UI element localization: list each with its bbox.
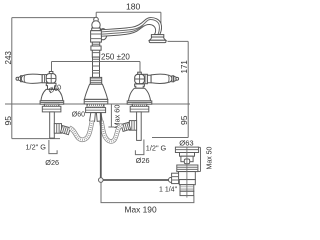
- pop-up rod joint: [99, 178, 104, 183]
- left valve bonnet: [46, 83, 56, 89]
- spout attach boss: [99, 29, 107, 40]
- right valve base flange: [127, 101, 152, 104]
- dimension 250 line: [52, 62, 141, 74]
- spout column neck: [92, 42, 99, 57]
- dimension Max 50 bracket: [197, 147, 201, 171]
- svg-text:250 ±20: 250 ±20: [101, 52, 130, 61]
- dimension O26 right bracket: [135, 140, 144, 155]
- left shank hatched: [44, 104, 59, 109]
- drain tailpipe threaded: [180, 185, 194, 192]
- right handle grip: [151, 74, 172, 83]
- right valve bell base: [128, 88, 150, 101]
- drain clamp nut: [177, 165, 198, 172]
- spout outlet band: [151, 35, 163, 37]
- svg-text:180: 180: [126, 2, 141, 12]
- right hose crimp: [121, 122, 130, 131]
- pop-up vertical rod: [100, 113, 102, 179]
- left hose crimp: [61, 126, 71, 135]
- left hose fitting hex: [54, 124, 61, 134]
- drain flange: [175, 147, 198, 152]
- left valve bell base: [41, 89, 63, 100]
- dimension 95 left vertical line: [11, 104, 13, 139]
- svg-text:Max 50: Max 50: [207, 146, 214, 169]
- dimension Max 60 line: [108, 104, 114, 127]
- spout column upper body: [91, 31, 102, 42]
- dimension 243 extension line top: [12, 17, 96, 19]
- dimension 243 vertical line: [11, 18, 13, 104]
- svg-text:1 1/4": 1 1/4": [159, 187, 178, 194]
- drain step1: [180, 153, 195, 157]
- hose left: [69, 121, 92, 140]
- right handle collar: [147, 75, 151, 83]
- dimension 171/95 right vertical: [152, 41, 188, 137]
- drain knob: [184, 159, 189, 164]
- left valve base flange: [40, 101, 64, 104]
- left handle collar: [42, 75, 47, 83]
- spout outlet rim: [149, 40, 166, 42]
- svg-text:1/2" G: 1/2" G: [26, 143, 47, 152]
- svg-text:Ø60: Ø60: [72, 112, 85, 119]
- right handle socket ring: [143, 74, 148, 83]
- left handle grip: [21, 74, 42, 83]
- svg-text:Ø26: Ø26: [136, 156, 150, 165]
- spout column neck collar: [91, 46, 101, 50]
- left valve ball: [46, 74, 56, 83]
- dimension Max 190 line: [101, 183, 194, 203]
- right shank hatched: [132, 104, 147, 109]
- svg-text:Ø26: Ø26: [45, 158, 59, 167]
- pop-up horizontal rod: [103, 179, 170, 181]
- dimension O26 left bracket: [49, 140, 57, 154]
- svg-text:243: 243: [4, 51, 13, 65]
- svg-text:Ø63: Ø63: [179, 138, 193, 147]
- spout column bell base: [84, 84, 107, 99]
- drain bottom ring: [180, 191, 194, 195]
- svg-text:95: 95: [179, 115, 189, 125]
- spout column base flange: [84, 99, 108, 104]
- svg-text:171: 171: [180, 60, 189, 74]
- drain body: [179, 172, 196, 180]
- drain rod joint hex: [172, 173, 179, 183]
- left handle tip finial: [16, 77, 19, 80]
- spout column base rings: [90, 77, 101, 84]
- spout column finial small ball: [94, 17, 99, 22]
- spout curve: [101, 18, 161, 37]
- svg-text:Max 190: Max 190: [125, 204, 157, 214]
- dimension 95 left bottom extension: [12, 138, 60, 140]
- drain lower box: [179, 180, 195, 185]
- left valve ball top nub: [49, 72, 53, 74]
- right shank nut: [130, 106, 149, 112]
- spout column finial ball: [92, 21, 100, 29]
- spout inner lines: [102, 19, 159, 34]
- svg-text:1/2" G: 1/2" G: [146, 143, 167, 152]
- spout outlet skirt: [150, 37, 166, 40]
- center hose tails: [90, 113, 96, 122]
- right valve ball top nub: [138, 72, 142, 74]
- right handle tip finial: [172, 76, 174, 82]
- svg-text:95: 95: [3, 116, 13, 126]
- center shank hatched: [87, 104, 104, 108]
- drain step2: [181, 156, 193, 162]
- left supply tube: [50, 112, 55, 138]
- right hose fitting hex: [129, 121, 136, 131]
- drain rod joint ball: [169, 177, 174, 182]
- left shank nut: [42, 106, 61, 112]
- dimension 180 line: [96, 12, 161, 24]
- drain centerline: [186, 147, 188, 197]
- right valve ball: [135, 74, 145, 83]
- center shank nut: [86, 108, 106, 113]
- hose right: [101, 121, 122, 142]
- right valve bonnet: [135, 84, 145, 88]
- right supply tube: [137, 112, 142, 140]
- spout column top collar: [92, 28, 101, 31]
- deck line: [5, 103, 190, 105]
- spout column lower shaft: [93, 57, 100, 77]
